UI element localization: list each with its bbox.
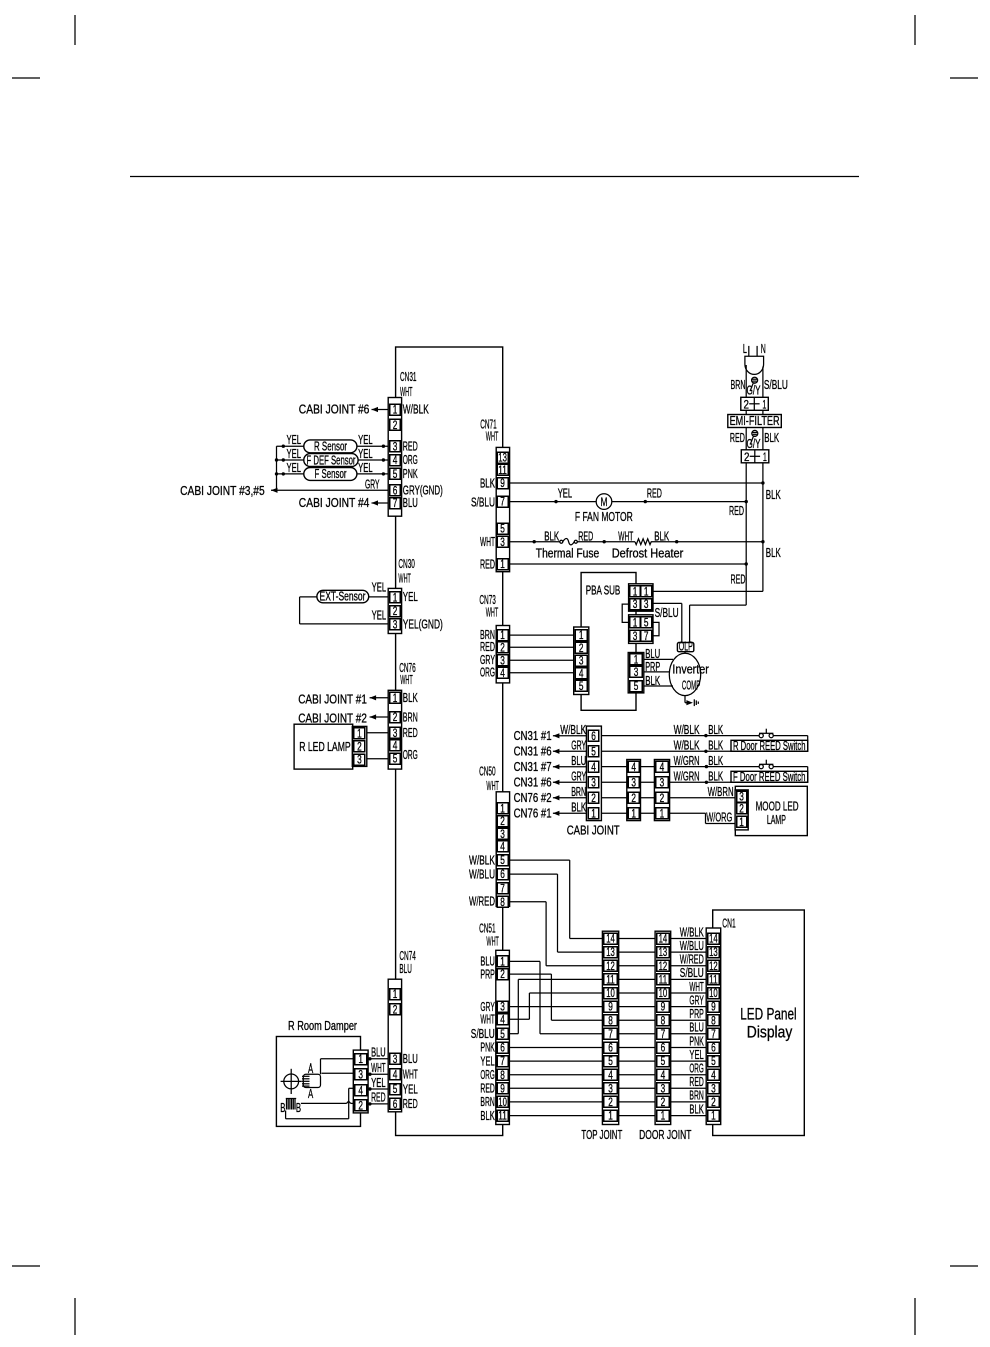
EMI-FILTER [728, 415, 782, 428]
svg-text:ORG: ORG [480, 665, 495, 679]
wire EXT-Sensor to CN30-3 [300, 596, 317, 598]
svg-text:1: 1 [631, 808, 636, 820]
svg-text:BLK: BLK [480, 477, 495, 491]
svg-text:2: 2 [711, 1097, 716, 1109]
svg-text:ORG: ORG [689, 1062, 703, 1076]
svg-text:11: 11 [498, 1111, 507, 1123]
svg-text:W/GRN: W/GRN [674, 754, 700, 768]
svg-text:RED: RED [731, 573, 746, 587]
svg-text:BLU: BLU [403, 1052, 418, 1066]
resistor EXT-Sensor [317, 590, 369, 603]
svg-text:M: M [601, 495, 608, 509]
svg-text:S/BLU: S/BLU [471, 1027, 495, 1041]
wire CABI JOINT 6 to R door reed switch [601, 735, 759, 737]
connector PBA SUB output lower [629, 615, 653, 644]
wire defrost heater to mains BLK [651, 541, 763, 543]
jumper PBA SUB left pins 3-1 [622, 604, 630, 622]
svg-text:F DEF Sensor: F DEF Sensor [307, 453, 356, 467]
svg-text:W/BLK: W/BLK [469, 854, 495, 868]
svg-text:1: 1 [634, 655, 639, 667]
arrows into CABI JOINT [553, 733, 560, 738]
svg-text:BRN: BRN [403, 710, 418, 724]
wire reed switch to box F [773, 766, 807, 768]
svg-text:RED: RED [480, 1082, 494, 1096]
wires damper to CN74 with junction dots [368, 1058, 390, 1060]
svg-text:6: 6 [393, 1099, 398, 1111]
svg-text:10: 10 [659, 988, 668, 1000]
wire R Sensor left lead [277, 445, 304, 447]
svg-text:B: B [280, 1101, 285, 1115]
svg-text:YEL: YEL [480, 1054, 494, 1068]
F Door REED Switch box [731, 771, 808, 782]
svg-text:WHT: WHT [398, 572, 411, 586]
svg-text:BLK: BLK [708, 738, 723, 752]
connector R LED LAMP pins [352, 726, 367, 766]
svg-text:TOP JOINT: TOP JOINT [581, 1128, 622, 1142]
wire mains BLK vertical [762, 463, 764, 592]
svg-text:W/BLK: W/BLK [674, 723, 700, 737]
svg-text:7: 7 [608, 1029, 613, 1041]
svg-text:4: 4 [500, 1014, 505, 1026]
svg-text:YEL: YEL [372, 609, 387, 623]
damper motor symbol [284, 1074, 299, 1089]
svg-text:Inverter: Inverter [672, 662, 708, 676]
svg-text:11: 11 [498, 465, 507, 477]
ground COMP frame [684, 696, 686, 703]
svg-text:11: 11 [659, 975, 668, 987]
svg-text:W/BLU: W/BLU [469, 868, 495, 882]
svg-text:L: L [743, 342, 747, 356]
svg-text:BLU: BLU [399, 962, 412, 976]
svg-text:S/BLU: S/BLU [764, 378, 788, 392]
svg-text:W/GRN: W/GRN [674, 769, 700, 783]
svg-text:YEL: YEL [689, 1048, 703, 1062]
resistor F DEF Sensor [304, 454, 358, 467]
connector PBA SUB input [574, 627, 589, 695]
svg-text:2: 2 [393, 420, 398, 432]
svg-text:3: 3 [393, 620, 398, 632]
R door reed switch contact [759, 734, 763, 738]
svg-text:3: 3 [631, 777, 636, 789]
svg-text:1: 1 [358, 1054, 363, 1066]
svg-text:3: 3 [644, 599, 649, 611]
svg-text:W/BLU: W/BLU [680, 939, 704, 953]
svg-text:BRN: BRN [571, 785, 586, 799]
svg-text:6: 6 [393, 485, 398, 497]
svg-text:BRN: BRN [480, 1095, 494, 1109]
wire damper pin3 to coil A [322, 1072, 355, 1074]
OLP [677, 643, 693, 652]
svg-text:1: 1 [500, 957, 505, 969]
wire CABI JOINT 2 to MOOD LED 3 [601, 797, 737, 799]
svg-text:1: 1 [644, 587, 649, 599]
svg-text:5: 5 [393, 469, 398, 481]
svg-text:YEL: YEL [372, 580, 387, 594]
svg-text:PNK: PNK [480, 1041, 495, 1055]
svg-text:YEL: YEL [403, 590, 418, 604]
svg-text:2: 2 [631, 793, 636, 805]
svg-text:7: 7 [500, 497, 505, 509]
svg-text:WHT: WHT [403, 1068, 418, 1082]
wire plug line BRN [745, 365, 747, 397]
svg-text:2: 2 [500, 642, 505, 654]
svg-text:BLU: BLU [571, 754, 586, 768]
svg-text:GRY: GRY [571, 738, 586, 752]
svg-text:S/BLU: S/BLU [680, 966, 704, 980]
wire CN71-3 WHT to thermal fuse [508, 541, 560, 543]
svg-text:WHT: WHT [486, 779, 499, 793]
svg-text:CABI JOINT #1: CABI JOINT #1 [298, 692, 367, 706]
svg-text:F Sensor: F Sensor [315, 467, 347, 481]
svg-text:WHT: WHT [371, 1061, 386, 1075]
svg-text:9: 9 [500, 478, 505, 490]
wire CN50-5 W/BLK to top joint 14 [508, 859, 570, 861]
svg-text:ORG: ORG [403, 748, 418, 762]
wire CN71-7 S/BLU to F fan motor [508, 501, 596, 503]
svg-text:WHT: WHT [480, 535, 495, 549]
wire EXT-Sensor to CN30-1 [369, 596, 390, 598]
svg-text:CABI JOINT #6: CABI JOINT #6 [299, 402, 370, 416]
svg-text:LAMP: LAMP [767, 813, 786, 827]
svg-text:BLK: BLK [708, 769, 723, 783]
svg-text:RED: RED [480, 557, 495, 571]
svg-text:1: 1 [357, 728, 362, 740]
svg-text:8: 8 [711, 1015, 716, 1027]
svg-text:10: 10 [709, 988, 718, 1000]
svg-text:YEL: YEL [287, 433, 302, 447]
svg-text:14: 14 [606, 934, 615, 946]
svg-text:3: 3 [500, 829, 505, 841]
svg-text:2: 2 [393, 1005, 398, 1017]
svg-text:RED: RED [403, 1097, 418, 1111]
connector CN73 [496, 626, 509, 683]
svg-text:1: 1 [500, 630, 505, 642]
wire plug neutral S/BLU [762, 367, 764, 398]
svg-text:CABI JOINT #3,#5: CABI JOINT #3,#5 [180, 484, 265, 498]
svg-text:EMI-FILTER: EMI-FILTER [730, 414, 780, 428]
svg-text:1: 1 [393, 405, 398, 417]
wire reed switch to box [773, 735, 807, 737]
svg-text:COMP: COMP [682, 679, 700, 693]
svg-text:S/BLU: S/BLU [471, 495, 495, 509]
wire R LED LAMP 3 to CN76-5 [365, 758, 390, 760]
wire PBA SUB 3 to OLP [652, 602, 682, 604]
svg-text:6: 6 [608, 1043, 613, 1055]
svg-text:Display: Display [747, 1024, 793, 1042]
svg-text:PNK: PNK [689, 1034, 704, 1048]
svg-text:3: 3 [634, 667, 639, 679]
svg-text:LED Panel: LED Panel [740, 1006, 797, 1024]
svg-text:3: 3 [633, 631, 638, 643]
svg-text:BLU: BLU [371, 1046, 386, 1060]
wire sensor ground bus [276, 446, 278, 490]
svg-text:CN50: CN50 [479, 765, 496, 779]
svg-text:1: 1 [633, 618, 638, 630]
svg-text:W/BLK: W/BLK [680, 925, 704, 939]
svg-text:3: 3 [357, 755, 362, 767]
svg-text:W/BLK: W/BLK [560, 723, 586, 737]
wire PBA SUB 1 to mains BLK [652, 590, 763, 592]
svg-text:14: 14 [709, 934, 718, 946]
svg-text:YEL: YEL [371, 1076, 386, 1090]
svg-text:CN31 #6: CN31 #6 [514, 775, 552, 789]
wire damper pin1 to coil A [321, 1058, 355, 1060]
svg-text:4: 4 [358, 1085, 363, 1097]
svg-text:4: 4 [661, 1070, 666, 1082]
connector 2+1 upper [741, 397, 769, 410]
svg-text:7: 7 [661, 1029, 666, 1041]
wire R Sensor to CN31-3 [357, 445, 390, 447]
svg-text:1: 1 [711, 1111, 716, 1123]
svg-text:3: 3 [358, 1069, 363, 1081]
svg-text:Thermal Fuse: Thermal Fuse [536, 547, 599, 561]
svg-text:2: 2 [393, 606, 398, 618]
svg-text:2: 2 [608, 1097, 613, 1109]
svg-text:3: 3 [500, 537, 505, 549]
MOOD LED LAMP box [735, 786, 807, 835]
R Room Damper box [276, 1037, 360, 1127]
svg-text:12: 12 [709, 961, 718, 973]
svg-text:4: 4 [579, 668, 584, 680]
svg-text:6: 6 [591, 731, 596, 743]
svg-text:1: 1 [608, 1111, 613, 1123]
wire F Sensor to CN31-5 [357, 473, 390, 475]
connector CN51 [496, 950, 510, 1124]
svg-text:A: A [308, 1087, 314, 1101]
wire CN50-8 W/RED to top joint 12 [508, 901, 546, 903]
F door reed switch contact [759, 765, 763, 769]
svg-text:YEL: YEL [287, 461, 302, 475]
svg-text:3: 3 [711, 1083, 716, 1095]
svg-text:2: 2 [660, 793, 665, 805]
wire mains RED to OLP [690, 604, 747, 606]
main PBA board box [396, 347, 503, 1136]
wire F DEF Sensor left lead [277, 459, 304, 461]
svg-text:BLK: BLK [708, 754, 723, 768]
connector CN76 [388, 690, 401, 769]
connector CN30 [388, 588, 401, 633]
R LED LAMP box [294, 724, 353, 769]
svg-text:3: 3 [393, 728, 398, 740]
connector CN50 [496, 792, 509, 907]
svg-text:CN31: CN31 [400, 370, 417, 384]
wire CN71-9 BLK to mains [508, 482, 763, 484]
wires CN51 6-11 to joints 6-1 [509, 1047, 604, 1049]
svg-text:4: 4 [711, 1070, 716, 1082]
svg-text:2: 2 [393, 712, 398, 724]
svg-text:BLU: BLU [689, 1021, 703, 1035]
svg-text:CN31 #7: CN31 #7 [514, 760, 552, 774]
svg-text:YEL: YEL [558, 487, 573, 501]
svg-text:3: 3 [660, 777, 665, 789]
svg-text:2: 2 [358, 1101, 363, 1113]
svg-text:1: 1 [739, 817, 744, 829]
svg-text:W/ORG: W/ORG [706, 811, 732, 825]
svg-text:5: 5 [634, 681, 639, 693]
svg-text:5: 5 [500, 855, 505, 867]
svg-text:2: 2 [744, 398, 750, 412]
svg-text:7: 7 [393, 498, 398, 510]
svg-text:RED: RED [403, 726, 418, 740]
svg-text:N: N [761, 342, 766, 356]
svg-text:3: 3 [393, 1054, 398, 1066]
svg-text:CN1: CN1 [722, 917, 736, 931]
svg-text:BLK: BLK [480, 1109, 495, 1123]
svg-text:5: 5 [711, 1056, 716, 1068]
svg-text:R Sensor: R Sensor [314, 440, 347, 454]
svg-text:CABI JOINT #4: CABI JOINT #4 [299, 496, 370, 510]
svg-text:10: 10 [498, 1097, 507, 1109]
svg-text:7: 7 [644, 631, 649, 643]
svg-text:5: 5 [500, 1029, 505, 1041]
svg-text:EXT-Sensor: EXT-Sensor [320, 590, 366, 604]
svg-text:OLP: OLP [679, 639, 693, 653]
svg-text:3: 3 [500, 1002, 505, 1014]
svg-text:5: 5 [591, 746, 596, 758]
svg-text:1: 1 [763, 450, 767, 464]
svg-text:1: 1 [591, 808, 596, 820]
svg-text:RED: RED [729, 504, 744, 518]
svg-text:3: 3 [393, 441, 398, 453]
printer crop marks [74, 15, 76, 45]
svg-text:BLK: BLK [766, 488, 781, 502]
wire CABI JOINT 5 return [601, 750, 808, 752]
svg-text:1: 1 [660, 808, 665, 820]
svg-text:PNK: PNK [403, 467, 418, 481]
wire CABI JOINT 3 return [601, 781, 808, 783]
svg-text:6: 6 [711, 1043, 716, 1055]
svg-text:2: 2 [357, 741, 362, 753]
svg-text:YEL: YEL [358, 433, 373, 447]
wire CN31-6 ground to CABI JOINT #3,#5 [271, 489, 390, 491]
wire 2+1 to EMI-FILTER [745, 410, 747, 414]
svg-text:BRN: BRN [689, 1089, 703, 1103]
svg-text:9: 9 [661, 1002, 666, 1014]
svg-text:YEL: YEL [358, 461, 373, 475]
svg-text:2: 2 [500, 969, 505, 981]
svg-text:BLK: BLK [403, 691, 418, 705]
svg-text:8: 8 [500, 897, 505, 909]
svg-text:BRN: BRN [731, 378, 746, 392]
svg-text:BLK: BLK [544, 529, 559, 543]
svg-text:CN76 #1: CN76 #1 [514, 806, 552, 820]
svg-text:7: 7 [711, 1029, 716, 1041]
ground symbol G/Y upper [752, 377, 758, 383]
svg-text:5: 5 [393, 1084, 398, 1096]
svg-text:1: 1 [393, 592, 398, 604]
resistor R Sensor [304, 440, 357, 453]
svg-text:9: 9 [500, 1083, 505, 1095]
svg-text:W/BRN: W/BRN [708, 785, 734, 799]
wire damper pin2 to coil B [301, 1102, 347, 1104]
svg-text:GRY: GRY [365, 477, 380, 491]
svg-text:4: 4 [660, 762, 665, 774]
svg-text:CN31 #6: CN31 #6 [514, 744, 552, 758]
resistor F Sensor [304, 468, 357, 481]
connector CN74 [388, 979, 401, 1112]
svg-text:5: 5 [579, 681, 584, 693]
svg-text:6: 6 [500, 1043, 505, 1055]
svg-text:8: 8 [661, 1015, 666, 1027]
svg-text:2: 2 [661, 1097, 666, 1109]
svg-text:DOOR JOINT: DOOR JOINT [639, 1128, 691, 1142]
svg-text:2: 2 [739, 804, 744, 816]
svg-text:1: 1 [579, 630, 584, 642]
svg-text:1: 1 [633, 587, 638, 599]
svg-text:9: 9 [711, 1002, 716, 1014]
svg-text:12: 12 [606, 961, 615, 973]
svg-text:PRP: PRP [689, 1007, 703, 1021]
svg-text:G/Y: G/Y [747, 384, 761, 398]
svg-text:W/BLK: W/BLK [674, 738, 700, 752]
wire CN71-1 RED to mains [508, 563, 746, 565]
wire CABI JOINT 4 to F door reed switch [601, 766, 759, 768]
thermal fuse symbol [560, 540, 563, 543]
svg-text:YEL(GND): YEL(GND) [403, 618, 443, 632]
connector DOOR JOINT [655, 931, 671, 1124]
wire thermal fuse to defrost heater [577, 541, 635, 543]
svg-text:5: 5 [393, 754, 398, 766]
connector R Room Damper pins [353, 1050, 368, 1113]
svg-text:WHT: WHT [618, 529, 633, 543]
wires CN73 to PBA SUB [508, 634, 575, 636]
svg-text:BLK: BLK [764, 431, 779, 445]
svg-text:10: 10 [606, 988, 615, 1000]
svg-text:W/RED: W/RED [680, 953, 704, 967]
svg-text:WHT: WHT [689, 980, 704, 994]
svg-text:BLK: BLK [708, 723, 723, 737]
svg-text:R Door REED Switch: R Door REED Switch [733, 739, 806, 753]
svg-text:1: 1 [393, 693, 398, 705]
wire F fan motor to mains RED [612, 501, 746, 503]
svg-text:RED: RED [371, 1091, 386, 1105]
connector CN31 [388, 398, 401, 517]
svg-text:ORG: ORG [403, 453, 418, 467]
svg-text:BLU: BLU [403, 496, 418, 510]
svg-text:2: 2 [500, 816, 505, 828]
PBA SUB box [581, 573, 636, 711]
wire CN51-4 WHT to joint 10 [509, 1018, 530, 1020]
svg-text:6: 6 [500, 869, 505, 881]
connector MOOD LED pins [735, 790, 748, 830]
svg-text:W/BLK: W/BLK [403, 402, 429, 416]
wires door joint to CN1 [669, 1115, 707, 1117]
svg-text:8: 8 [608, 1015, 613, 1027]
svg-text:13: 13 [659, 947, 668, 959]
svg-text:R LED LAMP: R LED LAMP [299, 740, 351, 754]
svg-text:ORG: ORG [480, 1068, 494, 1082]
svg-text:5: 5 [661, 1056, 666, 1068]
svg-text:4: 4 [500, 842, 505, 854]
wire damper pin4 loop to coil B [349, 1087, 355, 1089]
svg-text:13: 13 [498, 453, 507, 465]
svg-text:RED: RED [647, 487, 662, 501]
svg-text:PBA SUB: PBA SUB [586, 583, 621, 597]
motor F FAN MOTOR [596, 494, 612, 510]
svg-text:4: 4 [393, 455, 398, 467]
svg-text:CABI JOINT #2: CABI JOINT #2 [298, 712, 367, 726]
svg-text:5: 5 [608, 1056, 613, 1068]
connector TOP JOINT [602, 931, 618, 1124]
connector COMP drive [628, 653, 644, 693]
svg-text:5: 5 [644, 618, 649, 630]
damper coil A [303, 1074, 320, 1087]
svg-text:1: 1 [500, 559, 505, 571]
defrost heater symbol [635, 539, 651, 545]
svg-text:RED: RED [689, 1075, 703, 1089]
wire CN51-2 PRP to joint 8 [509, 973, 552, 975]
svg-text:8: 8 [500, 1070, 505, 1082]
